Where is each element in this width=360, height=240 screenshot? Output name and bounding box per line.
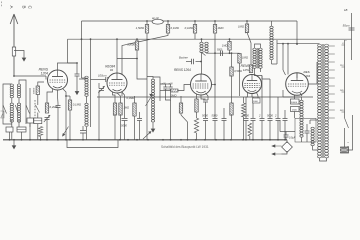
wire xyxy=(212,84,216,86)
resistor R1 xyxy=(145,25,148,34)
junction xyxy=(136,139,138,141)
junction xyxy=(269,139,271,141)
junction xyxy=(245,139,247,141)
wire xyxy=(239,63,241,96)
junction xyxy=(200,61,202,63)
wire xyxy=(285,132,287,136)
svg-text:1MΩ: 1MΩ xyxy=(238,25,245,29)
resistor R8 xyxy=(45,103,48,113)
capacitor block C3 xyxy=(17,127,26,132)
wire to V5 grid xyxy=(283,70,286,75)
junction xyxy=(13,139,15,141)
wire xyxy=(11,98,13,103)
junction xyxy=(147,139,149,141)
resistor R12 xyxy=(133,103,136,116)
coil L5b xyxy=(205,42,208,52)
junction xyxy=(296,43,298,45)
wire xyxy=(146,21,148,25)
wire xyxy=(205,121,207,140)
capacitor C12 xyxy=(137,119,142,121)
junction xyxy=(284,139,286,141)
capacitor C8 xyxy=(56,106,61,108)
junction xyxy=(21,139,23,141)
wire screen feed xyxy=(214,53,216,118)
resistor box R22 xyxy=(291,99,300,104)
wire xyxy=(282,90,284,97)
wire xyxy=(38,82,44,86)
wire xyxy=(272,63,278,65)
svg-text:0,1MΩ: 0,1MΩ xyxy=(127,96,135,100)
wire xyxy=(344,128,346,147)
capacitor C17 xyxy=(221,50,223,56)
wire xyxy=(76,63,78,74)
junction xyxy=(65,95,67,97)
capacitor C-sp xyxy=(349,28,355,30)
wire V1 leg c xyxy=(63,89,67,140)
wire voltage selector xyxy=(344,40,346,118)
junction xyxy=(76,62,78,64)
wire V4 leg c xyxy=(257,93,259,99)
wire xyxy=(37,124,39,140)
junction xyxy=(261,139,263,141)
wire xyxy=(300,93,302,96)
wire xyxy=(271,21,273,26)
coil L1a xyxy=(10,84,13,98)
wire xyxy=(166,89,171,100)
svg-text:1,5MΩ: 1,5MΩ xyxy=(136,26,145,30)
wire xyxy=(76,76,78,89)
junction xyxy=(194,20,196,22)
wire xyxy=(294,112,296,119)
wire xyxy=(146,75,148,130)
wire xyxy=(301,137,303,142)
ground (L4) xyxy=(151,126,156,133)
svg-text:5000: 5000 xyxy=(202,114,208,118)
wire V1 leg b xyxy=(57,90,60,103)
wire +anode rail (top) xyxy=(82,20,298,22)
choke L8 xyxy=(311,127,314,146)
core T2 xyxy=(256,48,258,68)
capacitor C13 xyxy=(192,59,194,65)
resistor R11 xyxy=(119,103,122,116)
junction xyxy=(287,43,289,45)
band switch S1 xyxy=(15,105,18,114)
wire coil return xyxy=(153,77,160,101)
capacitor C22 xyxy=(305,131,310,133)
wire heater loop xyxy=(67,140,118,148)
ground (main) xyxy=(12,140,17,150)
wire xyxy=(229,39,231,41)
resistor R4 xyxy=(213,25,216,34)
wire xyxy=(170,84,172,87)
wire xyxy=(205,102,207,118)
wire xyxy=(146,33,148,75)
wire xyxy=(309,120,311,124)
wire xyxy=(229,50,231,53)
wire V3 leg b xyxy=(201,95,206,99)
wire xyxy=(82,133,84,140)
svg-text:~: ~ xyxy=(347,145,349,149)
transformer T3 primary xyxy=(318,44,322,158)
wire xyxy=(284,121,286,140)
fuse box (mains) xyxy=(341,147,349,153)
tube V3 RENS1264 xyxy=(191,74,212,95)
wire xyxy=(282,151,288,154)
capacitor C23 xyxy=(284,135,289,137)
capacitor C11 xyxy=(122,119,128,121)
svg-text:5000: 5000 xyxy=(267,114,273,118)
wire rail1 left drop xyxy=(81,21,83,78)
wire ground bus xyxy=(3,139,287,141)
wire xyxy=(18,98,20,103)
wire grid feed V1 xyxy=(14,75,46,77)
arrow out 1 xyxy=(272,145,282,147)
mains switch S5 xyxy=(345,118,349,128)
coil L5a xyxy=(200,42,203,52)
svg-text:1MΩ: 1MΩ xyxy=(218,26,225,30)
capacitor block C6 xyxy=(34,118,42,124)
wire xyxy=(160,90,171,92)
junction xyxy=(46,139,48,141)
svg-text:100cm: 100cm xyxy=(98,74,107,78)
selector ticks xyxy=(342,45,345,112)
wire xyxy=(196,112,198,118)
svg-text:1204: 1204 xyxy=(41,71,49,75)
filter frame xyxy=(295,118,316,142)
ground (antenna side) xyxy=(22,55,27,62)
wire xyxy=(137,59,147,80)
svg-text:164: 164 xyxy=(306,74,311,78)
wire xyxy=(45,76,47,80)
wire xyxy=(21,132,23,140)
wire xyxy=(262,76,270,80)
wire AVC line xyxy=(122,33,168,96)
wire xyxy=(260,68,262,72)
svg-text:5000: 5000 xyxy=(217,50,223,52)
svg-text:220: 220 xyxy=(339,110,344,112)
svg-text:an Hz: an Hz xyxy=(152,16,159,20)
svg-text:50cm: 50cm xyxy=(343,24,351,28)
wire xyxy=(180,113,182,115)
band switch S3 xyxy=(26,105,30,114)
svg-text:0,5MΩ: 0,5MΩ xyxy=(234,69,242,73)
junction xyxy=(296,43,298,45)
junction xyxy=(65,139,67,141)
wire xyxy=(40,137,42,140)
wire xyxy=(296,73,298,78)
junction xyxy=(246,20,248,22)
coil L3b xyxy=(85,103,88,126)
resistor R21 (zigzag) xyxy=(242,103,246,117)
svg-text:04: 04 xyxy=(110,68,114,72)
wire xyxy=(214,21,216,25)
wire xyxy=(223,108,225,119)
wire xyxy=(46,120,48,140)
capacitor C-278 xyxy=(276,119,281,121)
wire xyxy=(214,121,216,140)
trimmer Ct2 xyxy=(168,87,172,89)
switch arm L4 xyxy=(146,94,153,106)
wire xyxy=(252,121,254,140)
wire xyxy=(271,60,273,64)
junction xyxy=(170,139,172,141)
wire filter xyxy=(283,96,302,98)
wire xyxy=(139,112,141,119)
wire xyxy=(160,83,171,85)
tube V5 RES164 xyxy=(286,73,309,96)
wire xyxy=(19,80,26,124)
junction xyxy=(231,52,233,54)
resistor box R26 xyxy=(253,98,261,103)
wire xyxy=(186,61,192,63)
junction xyxy=(252,139,254,141)
junction xyxy=(214,20,216,22)
resistor R6 (zigzag) xyxy=(38,127,42,137)
resistor R27 xyxy=(228,42,231,51)
junction xyxy=(229,52,231,54)
svg-text:0,5µF: 0,5µF xyxy=(289,137,296,140)
wire xyxy=(9,132,11,140)
junction xyxy=(204,139,206,141)
trim arrow 3 xyxy=(63,127,69,137)
wire xyxy=(277,97,279,119)
tube V1 RENS1204 xyxy=(48,70,68,90)
wire V4 leg b xyxy=(252,94,253,119)
wire xyxy=(120,115,122,140)
resistor R18 xyxy=(230,103,233,116)
junction xyxy=(57,139,59,141)
junction xyxy=(69,139,71,141)
trimmer (left edge) xyxy=(1,111,5,118)
wire xyxy=(136,39,138,41)
wire xyxy=(165,84,167,87)
capacitor C-270 xyxy=(268,119,273,121)
wire xyxy=(37,95,39,106)
wire xyxy=(82,77,87,79)
svg-text:5000: 5000 xyxy=(121,124,127,128)
wire xyxy=(29,123,31,140)
junction xyxy=(119,139,121,141)
junction xyxy=(201,38,203,40)
junction xyxy=(277,139,279,141)
junction xyxy=(214,52,216,54)
trimmer Ct1 xyxy=(163,87,167,89)
wire xyxy=(261,76,263,119)
junction xyxy=(215,139,217,141)
wire xyxy=(139,121,141,140)
wire coil core xyxy=(90,39,92,127)
transformer T3 secondary xyxy=(325,44,329,158)
jack arrow xyxy=(201,52,206,56)
wire xyxy=(223,121,225,140)
wire xyxy=(231,53,233,67)
wire xyxy=(286,140,288,143)
wire T2 top xyxy=(255,44,261,48)
svg-text:5000: 5000 xyxy=(212,114,218,118)
tube V2 RE084 xyxy=(107,73,127,93)
wire xyxy=(194,21,196,25)
wire xyxy=(124,121,126,140)
RF choke Dr1 xyxy=(152,19,163,24)
junction xyxy=(81,38,83,40)
wire T3 bottom xyxy=(320,158,327,161)
wire xyxy=(86,127,88,140)
capacitor block C2 xyxy=(6,127,13,132)
junction xyxy=(167,20,169,22)
wire grid lead V4 xyxy=(247,33,251,66)
wire xyxy=(196,61,202,63)
capacitor C5 xyxy=(75,74,80,76)
junction xyxy=(29,139,31,141)
junction xyxy=(90,38,92,40)
core T3 xyxy=(322,44,324,158)
capacitor C-262 xyxy=(260,119,265,121)
junction xyxy=(146,20,148,22)
wire xyxy=(146,130,148,140)
wire xyxy=(66,95,70,97)
wire xyxy=(301,97,303,100)
capacitor C16 xyxy=(213,119,218,121)
svg-text:LB: LB xyxy=(344,8,348,12)
wire mains xyxy=(348,115,353,150)
wire xyxy=(170,100,172,140)
wire anode bus V5 xyxy=(277,43,320,45)
svg-text:2500: 2500 xyxy=(292,110,298,112)
tap stubs T3 xyxy=(329,46,335,118)
svg-text:0,1MΩ: 0,1MΩ xyxy=(185,26,194,30)
wire xyxy=(194,33,196,39)
capacitor C14 xyxy=(203,100,208,102)
svg-text:Buchse: Buchse xyxy=(179,56,188,60)
coil L3a xyxy=(85,76,88,96)
wire xyxy=(287,44,289,75)
wire V4 leg a xyxy=(246,93,248,119)
wire xyxy=(37,113,39,119)
resistor R17 xyxy=(230,67,233,76)
wire xyxy=(321,43,323,45)
junction xyxy=(282,43,284,45)
wire xyxy=(29,88,31,127)
wire xyxy=(276,40,278,64)
resistor R19 xyxy=(238,54,241,63)
wire V2 leg c xyxy=(122,92,125,119)
junction xyxy=(223,139,225,141)
resistor R2 xyxy=(166,25,169,34)
junction xyxy=(136,58,138,60)
transformer T2 secondary xyxy=(259,48,262,68)
wire xyxy=(178,85,191,91)
svg-text:0,1MΩ: 0,1MΩ xyxy=(73,103,82,107)
resistor R10 xyxy=(113,103,116,116)
resistor R3 xyxy=(193,25,196,34)
capacitor C20 xyxy=(251,119,256,121)
wire xyxy=(294,95,296,99)
junction xyxy=(162,139,164,141)
wire xyxy=(69,110,71,140)
wire rail1 end drop xyxy=(296,21,298,44)
resistor box R23 xyxy=(291,107,300,112)
edge mark xyxy=(1,2,3,7)
resistor R15 xyxy=(195,99,198,112)
resistor R9 xyxy=(68,100,71,110)
wire xyxy=(82,126,84,131)
junction xyxy=(136,38,138,40)
wire speaker line xyxy=(351,13,353,60)
svg-text:5000: 5000 xyxy=(253,101,259,103)
wire xyxy=(231,76,233,103)
wire xyxy=(306,124,308,131)
resistor R25 (zigzag) xyxy=(248,123,252,136)
wire xyxy=(114,115,116,140)
wire xyxy=(134,116,136,140)
antenna A1 xyxy=(10,14,18,76)
svg-text:1254: 1254 xyxy=(243,68,250,72)
resistor R14 (horiz) xyxy=(171,89,178,92)
wire xyxy=(180,96,182,103)
wire xyxy=(246,21,248,24)
wire xyxy=(57,103,59,106)
wire xyxy=(269,121,271,140)
variable capacitor C7 xyxy=(44,115,50,122)
wire xyxy=(249,136,251,140)
wire xyxy=(196,133,198,140)
core T3 xyxy=(323,44,325,158)
wire xyxy=(243,97,245,103)
wire xyxy=(69,96,71,100)
wire antenna to ground cap xyxy=(14,51,24,56)
transformer T2 primary xyxy=(253,48,256,68)
wire xyxy=(269,79,271,119)
wire xyxy=(261,121,263,140)
resistor R13 xyxy=(135,41,138,50)
wire V5 side xyxy=(308,62,317,84)
wire grid V2 xyxy=(107,80,109,84)
wire grid V3 xyxy=(201,53,203,74)
junction xyxy=(116,38,118,40)
wire xyxy=(11,120,13,140)
wire xyxy=(98,91,100,140)
junction xyxy=(242,139,244,141)
resistor R24 xyxy=(179,103,182,113)
svg-text:50000: 50000 xyxy=(127,43,135,47)
wire xyxy=(284,110,286,119)
wire xyxy=(201,39,203,42)
junction xyxy=(98,139,100,141)
wire xyxy=(167,21,169,25)
wire xyxy=(134,96,136,103)
coil L4 xyxy=(151,79,154,122)
wire xyxy=(285,137,287,140)
tube V4 RENS1254 xyxy=(243,75,262,94)
junction xyxy=(127,139,129,141)
arrow out 2 xyxy=(272,153,282,155)
trim arrow 2 xyxy=(143,132,151,140)
meter M1 (diamond) xyxy=(282,142,293,153)
wire xyxy=(18,120,20,130)
svg-text:RENS 1264: RENS 1264 xyxy=(174,68,191,72)
capacitor C19 xyxy=(244,119,249,121)
wire xyxy=(187,122,189,140)
wire xyxy=(306,133,308,142)
wire xyxy=(97,96,313,98)
wire V3 leg a xyxy=(196,94,198,100)
wire V2 leg b xyxy=(117,93,121,103)
wire xyxy=(245,121,247,140)
resistor R5 xyxy=(245,24,248,33)
choke L6 xyxy=(270,26,273,60)
junction xyxy=(187,139,189,141)
wire anode V2 xyxy=(116,39,118,73)
